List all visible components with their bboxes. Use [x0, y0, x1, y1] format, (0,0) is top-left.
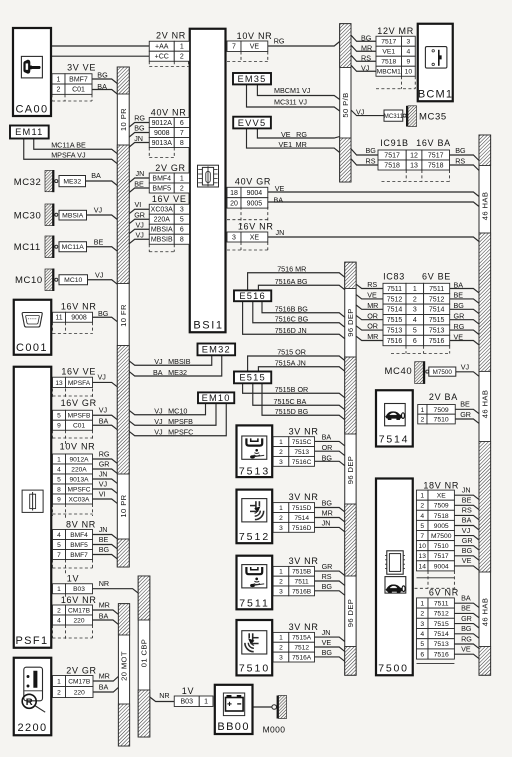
svg-text:7515C: 7515C: [292, 439, 312, 446]
wire 7510 GR: [455, 419, 479, 423]
svg-text:18: 18: [230, 190, 238, 197]
wire EM35 MBCM1 VJ: [257, 84, 339, 100]
wire IC83 BA: [450, 289, 479, 293]
svg-text:16V NR: 16V NR: [61, 302, 97, 312]
svg-text:1: 1: [420, 493, 424, 500]
svg-text:3V NR: 3V NR: [289, 426, 319, 436]
wire 9012A RG bsi: [129, 123, 149, 128]
svg-text:7517: 7517: [434, 553, 449, 560]
svg-text:BE: BE: [461, 604, 471, 613]
svg-text:9004: 9004: [247, 190, 263, 197]
wire 9005 BA: [268, 202, 479, 207]
svg-text:RS: RS: [322, 572, 332, 581]
svg-text:1: 1: [57, 456, 61, 463]
svg-text:JN: JN: [276, 228, 285, 237]
svg-text:RG: RG: [274, 37, 285, 46]
pin table 7514: [418, 405, 456, 424]
svg-text:6: 6: [180, 227, 184, 234]
svg-text:MC40: MC40: [385, 366, 413, 377]
svg-text:RS: RS: [367, 280, 377, 289]
wire 7517 BG: [454, 556, 479, 560]
ground MC10: [45, 269, 58, 292]
svg-text:7515B OR: 7515B OR: [275, 385, 309, 394]
svg-text:16V BA: 16V BA: [416, 138, 451, 148]
svg-text:10 PR: 10 PR: [119, 108, 128, 131]
svg-text:9004: 9004: [434, 563, 449, 570]
svg-text:+CC: +CC: [155, 54, 169, 61]
svg-text:PSF1: PSF1: [15, 635, 48, 647]
wire 220A GR bsi: [129, 219, 149, 223]
pin table PSF1 10V NR: [53, 454, 93, 504]
pin table 7500 18V: [417, 490, 455, 571]
svg-text:BE: BE: [94, 237, 104, 246]
svg-text:BA: BA: [274, 195, 284, 204]
svg-text:1V: 1V: [67, 573, 79, 583]
svg-text:MC10: MC10: [15, 275, 43, 286]
svg-text:9: 9: [407, 59, 411, 66]
svg-text:7516: 7516: [387, 338, 403, 345]
svg-text:BG: BG: [455, 146, 466, 155]
svg-text:01 CBP: 01 CBP: [140, 639, 149, 668]
svg-text:RS: RS: [455, 156, 465, 165]
alarm ecu 7500: [376, 479, 413, 676]
svg-text:BMF5: BMF5: [70, 542, 88, 549]
pin table PSF1 1V: [53, 584, 93, 594]
wire IC83 RS: [356, 284, 383, 288]
wire BMF5 BE bsi: [129, 188, 149, 193]
svg-text:BE: BE: [462, 496, 472, 505]
svg-text:7512: 7512: [434, 611, 449, 618]
icon 7513: [242, 436, 267, 459]
wire M7500 VJ: [456, 372, 479, 377]
svg-text:10V NR: 10V NR: [60, 442, 96, 452]
svg-text:2V GR: 2V GR: [66, 666, 97, 676]
svg-text:220A: 220A: [154, 217, 171, 224]
svg-text:JN: JN: [322, 518, 331, 527]
pin table 7510: [273, 632, 314, 662]
svg-text:1V: 1V: [182, 686, 194, 696]
pin table 7512: [273, 503, 314, 533]
svg-text:BE: BE: [134, 179, 144, 188]
svg-text:JN: JN: [136, 169, 145, 178]
svg-text:7516A BG: 7516A BG: [275, 277, 308, 286]
svg-text:VJ: VJ: [136, 231, 145, 240]
wire 7518 RS: [454, 515, 479, 519]
svg-text:1: 1: [279, 505, 283, 512]
svg-text:BE: BE: [454, 291, 464, 300]
wire 7511 BA: [454, 603, 479, 607]
wire VJ to MC311: [351, 110, 384, 116]
svg-text:3V NR: 3V NR: [289, 622, 319, 632]
svg-text:10V NR: 10V NR: [237, 31, 273, 41]
svg-text:7512: 7512: [239, 531, 270, 543]
svg-text:3V NR: 3V NR: [289, 492, 319, 502]
fuse module BCM1: [418, 24, 453, 102]
svg-text:C01: C01: [73, 423, 85, 430]
ground MC32: [45, 170, 58, 192]
svg-text:1: 1: [279, 569, 283, 576]
splice EM32: [198, 344, 236, 356]
wire XE JN: [268, 237, 479, 242]
svg-text:3: 3: [279, 654, 283, 661]
svg-text:16V VE: 16V VE: [152, 194, 187, 204]
svg-text:BG: BG: [99, 545, 110, 554]
icon 7511: [242, 565, 267, 588]
icon BB00 battery: [223, 693, 244, 716]
svg-text:7511: 7511: [429, 286, 444, 293]
wire 7516 VE: [454, 654, 479, 658]
wire VJ to MBCM1: [351, 65, 376, 71]
svg-text:5: 5: [413, 328, 417, 335]
svg-text:OR: OR: [367, 322, 378, 331]
connector M7500: [429, 367, 456, 376]
svg-text:20: 20: [230, 200, 238, 207]
svg-text:MR: MR: [322, 508, 333, 517]
svg-text:9008: 9008: [154, 130, 170, 137]
svg-text:7511: 7511: [434, 600, 449, 607]
svg-text:7515C BA: 7515C BA: [274, 397, 307, 406]
wire IC91B RS: [450, 165, 480, 171]
svg-text:GR: GR: [460, 410, 471, 419]
svg-text:2: 2: [420, 611, 424, 618]
wire 7513 p1 BA: [315, 441, 345, 445]
svg-text:MBSIB: MBSIB: [151, 237, 173, 244]
splice E516: [234, 290, 271, 301]
icon 7514 car: [385, 404, 406, 426]
svg-text:9005: 9005: [434, 523, 449, 530]
svg-text:5: 5: [57, 476, 61, 483]
svg-text:VJ: VJ: [361, 64, 370, 73]
svg-text:BG: BG: [98, 309, 109, 318]
svg-text:7514: 7514: [434, 631, 449, 638]
svg-text:7: 7: [57, 552, 61, 559]
svg-text:VI: VI: [135, 200, 142, 209]
svg-text:8V NR: 8V NR: [66, 519, 96, 529]
svg-text:MPSFC: MPSFC: [67, 486, 90, 493]
svg-text:VI: VI: [99, 489, 106, 498]
wire MPSFB VJ: [93, 415, 118, 419]
svg-text:VJ: VJ: [98, 373, 107, 382]
wire M7500 VJ 7500: [454, 536, 479, 540]
wire MPSFC VJ: [93, 489, 118, 493]
pin table 7500 6V: [417, 598, 455, 659]
svg-text:40V GR: 40V GR: [235, 177, 271, 187]
wire CM17B MR: [93, 610, 119, 614]
pin table IC83: [383, 283, 450, 345]
svg-text:9013A: 9013A: [152, 140, 173, 147]
svg-text:4: 4: [413, 317, 417, 324]
svg-text:BA ME32: BA ME32: [153, 368, 187, 377]
svg-text:1: 1: [57, 678, 61, 685]
svg-text:EM35: EM35: [237, 74, 266, 84]
svg-text:MC311: MC311: [384, 113, 404, 120]
wire XE JN 7500: [454, 495, 479, 499]
svg-text:2: 2: [57, 87, 61, 94]
svg-text:GR: GR: [134, 210, 145, 219]
svg-text:BA: BA: [99, 683, 109, 692]
wire BG to 7517: [351, 35, 376, 41]
wire 7512 p3 JN: [315, 527, 345, 531]
svg-text:7517: 7517: [428, 152, 444, 159]
wire to IC91B 13: [351, 159, 378, 165]
svg-text:16V GR: 16V GR: [61, 398, 97, 408]
svg-text:2: 2: [279, 449, 283, 456]
ground MC30: [45, 204, 58, 227]
wire 7513 p2 OR: [315, 451, 345, 455]
svg-text:MPSFA: MPSFA: [68, 380, 91, 387]
wire EVV5 VE1 MR: [247, 128, 340, 152]
svg-text:7518: 7518: [384, 162, 400, 169]
svg-text:OR: OR: [367, 311, 378, 320]
svg-text:1: 1: [279, 635, 283, 642]
svg-text:BMF7: BMF7: [70, 552, 88, 559]
svg-text:5: 5: [420, 523, 424, 530]
svg-text:C001: C001: [16, 342, 48, 354]
wire 9012A RG: [93, 459, 118, 463]
wire EM11 MPSFA VJ: [24, 139, 118, 164]
svg-text:JN: JN: [99, 469, 108, 478]
wire 7515 OR: [248, 356, 345, 372]
svg-text:4: 4: [407, 49, 411, 56]
pin table BSI1 10V NR: [227, 41, 268, 52]
wire 9004 VE: [268, 192, 479, 197]
svg-text:18V NR: 18V NR: [423, 480, 459, 490]
svg-text:7509: 7509: [434, 503, 449, 510]
svg-text:3: 3: [413, 307, 417, 314]
svg-text:VE1: VE1: [382, 49, 395, 56]
svg-text:VJ MPSFB: VJ MPSFB: [154, 417, 193, 426]
svg-text:VJ MBSIB: VJ MBSIB: [154, 357, 191, 366]
wire ME32 BA: [86, 181, 118, 186]
svg-text:EM11: EM11: [15, 127, 43, 137]
harness bar 10 PR: [117, 67, 129, 567]
svg-text:VJ: VJ: [462, 526, 471, 535]
svg-text:8: 8: [57, 486, 61, 493]
svg-text:VE: VE: [454, 332, 464, 341]
svg-text:1: 1: [57, 586, 61, 593]
svg-text:7516A: 7516A: [292, 654, 312, 661]
svg-text:B03: B03: [181, 699, 194, 706]
wire 9004 VE 7500: [454, 566, 479, 570]
icon C001: [22, 313, 42, 328]
svg-text:BE: BE: [460, 399, 470, 408]
svg-text:IC91B: IC91B: [380, 138, 409, 148]
pin table PSF1 16V VE: [53, 377, 93, 387]
wire 7516 MR: [248, 273, 345, 291]
wire MPSFC VJ em10: [129, 403, 226, 436]
svg-text:7512: 7512: [387, 296, 403, 303]
wire 7512 BE: [454, 613, 479, 617]
alarm siren 7514: [376, 390, 413, 446]
svg-text:12: 12: [410, 152, 418, 159]
icon 7512: [242, 499, 267, 522]
svg-text:JN: JN: [99, 525, 108, 534]
svg-text:MC10: MC10: [64, 277, 82, 284]
splice EM35: [233, 73, 271, 84]
svg-text:JN: JN: [462, 485, 471, 494]
svg-text:M000: M000: [263, 725, 286, 735]
wire IC83 OR2: [356, 315, 383, 319]
svg-text:BG: BG: [366, 146, 377, 155]
svg-text:EM32: EM32: [202, 345, 231, 355]
wire XC03A VI bsi: [129, 209, 149, 213]
connector MBSIA: [59, 210, 87, 220]
ground MC11: [45, 236, 58, 259]
svg-text:BG: BG: [322, 453, 333, 462]
connector MC11A: [59, 242, 87, 252]
svg-text:7511: 7511: [295, 579, 310, 586]
svg-text:EM10: EM10: [202, 393, 231, 403]
icon 7500 car: [385, 577, 406, 594]
svg-text:9: 9: [57, 423, 61, 430]
svg-text:BG: BG: [361, 33, 372, 42]
svg-text:XC03A: XC03A: [151, 207, 174, 214]
wire IC91B BG: [450, 155, 480, 161]
pin table PSF1 16V NR: [53, 605, 93, 625]
wire IC83 BE: [450, 299, 479, 303]
svg-text:JN: JN: [134, 134, 143, 143]
svg-text:1: 1: [279, 439, 283, 446]
wire 7516C BG: [253, 301, 345, 327]
wire MC10 VJ em10: [129, 403, 205, 415]
icon BSI1: [198, 165, 219, 187]
pin table BSI1 16V NR: [227, 232, 268, 242]
svg-text:M7500: M7500: [431, 533, 452, 540]
svg-text:7516 MR: 7516 MR: [277, 264, 306, 273]
svg-text:BA: BA: [91, 171, 101, 180]
svg-text:GR: GR: [461, 614, 472, 623]
svg-text:13: 13: [419, 553, 427, 560]
svg-text:BMF4: BMF4: [152, 175, 171, 182]
svg-text:MC32: MC32: [14, 177, 42, 188]
wire 7514 BG: [454, 634, 479, 638]
wire 7515C BA: [253, 383, 345, 409]
svg-text:MBCM1: MBCM1: [377, 69, 401, 76]
svg-text:CA00: CA00: [15, 104, 48, 116]
svg-text:2: 2: [279, 645, 283, 652]
svg-text:7513: 7513: [239, 466, 270, 478]
svg-text:12V MR: 12V MR: [377, 26, 414, 36]
svg-text:VE: VE: [322, 638, 332, 647]
svg-text:5: 5: [180, 217, 184, 224]
svg-text:40V NR: 40V NR: [151, 107, 187, 117]
svg-text:XE: XE: [250, 234, 260, 241]
icon BCM1: [425, 47, 447, 69]
splice EM10: [198, 392, 234, 403]
svg-text:MC30: MC30: [14, 211, 42, 222]
svg-text:C01: C01: [72, 87, 85, 94]
svg-text:2200: 2200: [17, 722, 47, 734]
svg-text:5: 5: [57, 542, 61, 549]
icon 7500 ecu: [385, 551, 405, 574]
svg-text:NR: NR: [159, 691, 169, 700]
svg-text:11: 11: [55, 315, 62, 322]
svg-text:MC11: MC11: [14, 242, 41, 253]
svg-text:1: 1: [180, 44, 184, 51]
pin table BSI1 2V GR: [149, 173, 189, 193]
svg-text:VE: VE: [250, 44, 260, 51]
wire 7512 p1 BG: [315, 508, 345, 512]
dashed table extensions: [52, 52, 456, 664]
svg-text:4: 4: [420, 513, 424, 520]
wire ME32 BA em32: [129, 355, 222, 376]
svg-text:7514: 7514: [429, 307, 445, 314]
svg-text:7510: 7510: [434, 543, 449, 550]
svg-text:MC11A: MC11A: [62, 244, 85, 251]
svg-text:BG: BG: [134, 124, 145, 133]
wire XC03A VI: [93, 499, 118, 503]
svg-text:220: 220: [74, 689, 85, 696]
svg-text:VE: VE: [462, 556, 472, 565]
svg-text:7515A JN: 7515A JN: [275, 358, 306, 367]
wire BMF4 JN bsi: [129, 178, 149, 183]
icon PSF1 fuse: [22, 490, 43, 512]
svg-text:BA: BA: [454, 280, 464, 289]
wire 7510 p2 VE: [315, 647, 345, 651]
svg-text:BG: BG: [322, 648, 333, 657]
svg-text:1: 1: [204, 699, 208, 706]
svg-text:5: 5: [57, 413, 61, 420]
svg-text:9005: 9005: [247, 200, 263, 207]
svg-text:10 FR: 10 FR: [119, 304, 128, 327]
svg-text:CM17B: CM17B: [68, 607, 91, 614]
svg-text:BMF7: BMF7: [69, 76, 88, 83]
wire BMF4 JN: [93, 535, 118, 539]
svg-text:2: 2: [420, 503, 424, 510]
svg-text:GR: GR: [454, 312, 465, 321]
svg-text:7509: 7509: [434, 407, 449, 414]
pin table IC91B: [378, 150, 450, 170]
washer pump 7512: [237, 490, 273, 544]
svg-text:7514: 7514: [379, 434, 410, 446]
svg-text:8: 8: [180, 237, 184, 244]
wire 7509 BE 7500: [454, 505, 479, 509]
svg-text:7515: 7515: [429, 317, 445, 324]
pin table BSI1 40V GR: [227, 187, 268, 208]
svg-text:BG: BG: [461, 624, 472, 633]
svg-text:7500: 7500: [378, 663, 409, 675]
svg-text:E516: E516: [239, 291, 266, 301]
svg-text:6: 6: [413, 338, 417, 345]
svg-text:7514: 7514: [294, 515, 309, 522]
svg-text:7513: 7513: [434, 641, 449, 648]
wire MBSIA VJ: [87, 215, 118, 220]
wire 9008 BG bsi: [129, 133, 149, 138]
svg-text:MR: MR: [361, 44, 372, 53]
pin table PSF1 8V NR: [53, 530, 93, 560]
svg-text:1: 1: [420, 600, 424, 607]
svg-text:3: 3: [279, 525, 283, 532]
svg-text:RS: RS: [361, 54, 371, 63]
pin table C001: [53, 312, 93, 322]
svg-text:2V BA: 2V BA: [429, 392, 458, 402]
svg-text:7515D: 7515D: [292, 505, 312, 512]
wire MBSIA VJ bsi: [129, 229, 149, 233]
svg-text:RG: RG: [461, 634, 472, 643]
svg-text:RG: RG: [99, 449, 110, 458]
svg-text:7515 OR: 7515 OR: [277, 348, 306, 357]
svg-text:5: 5: [420, 641, 424, 648]
svg-text:7515: 7515: [387, 317, 403, 324]
svg-text:MC11A BE: MC11A BE: [51, 141, 86, 150]
svg-text:BMF4: BMF4: [70, 532, 88, 539]
svg-text:7515A: 7515A: [292, 635, 312, 642]
svg-text:RS: RS: [462, 506, 472, 515]
svg-text:VJ: VJ: [356, 107, 365, 116]
svg-text:3: 3: [279, 459, 283, 466]
wire CA00 +CC: [51, 55, 149, 57]
wire to IC91B 12: [351, 149, 378, 155]
